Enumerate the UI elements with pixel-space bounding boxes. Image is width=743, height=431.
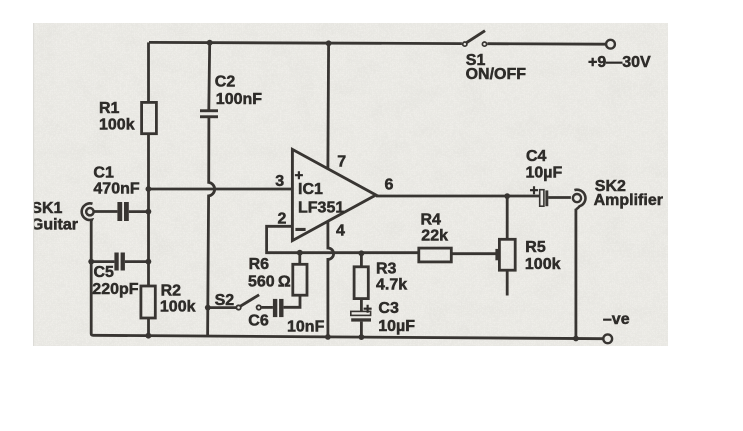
- svg-text:C4: C4: [526, 148, 547, 165]
- svg-text:100nF: 100nF: [216, 91, 262, 108]
- svg-text:22k: 22k: [421, 228, 448, 245]
- svg-text:SK1: SK1: [31, 200, 62, 217]
- svg-text:100k: 100k: [99, 116, 135, 133]
- svg-text:C2: C2: [215, 74, 236, 91]
- svg-text:IC1: IC1: [298, 181, 323, 198]
- svg-text:R1: R1: [99, 100, 120, 117]
- svg-text:C3: C3: [378, 300, 399, 317]
- svg-text:R5: R5: [525, 239, 546, 256]
- svg-text:LF351: LF351: [298, 199, 344, 216]
- svg-text:S2: S2: [215, 292, 235, 309]
- svg-text:10µF: 10µF: [526, 164, 563, 181]
- svg-text:Guitar: Guitar: [31, 217, 78, 234]
- svg-text:7: 7: [337, 154, 346, 171]
- svg-text:C5: C5: [94, 264, 115, 281]
- svg-text:Amplifier: Amplifier: [594, 192, 663, 209]
- svg-text:470nF: 470nF: [93, 181, 139, 198]
- svg-text:4.7k: 4.7k: [376, 276, 407, 293]
- svg-text:R6: R6: [249, 256, 270, 273]
- svg-text:560 Ω: 560 Ω: [248, 274, 291, 291]
- svg-text:100k: 100k: [160, 298, 196, 315]
- svg-text:+: +: [363, 301, 372, 318]
- svg-text:–ve: –ve: [603, 311, 630, 328]
- svg-text:+: +: [530, 182, 539, 199]
- svg-text:3: 3: [275, 173, 284, 190]
- svg-text:R3: R3: [376, 260, 397, 277]
- svg-text:10µF: 10µF: [378, 318, 415, 335]
- svg-text:+9—30V: +9—30V: [588, 54, 651, 71]
- svg-text:C6: C6: [248, 312, 269, 329]
- svg-text:C1: C1: [93, 164, 114, 181]
- svg-text:4: 4: [336, 223, 345, 240]
- svg-text:100k: 100k: [525, 256, 561, 273]
- svg-text:ON/OFF: ON/OFF: [466, 66, 527, 83]
- svg-text:R2: R2: [161, 282, 182, 299]
- svg-text:R4: R4: [421, 212, 442, 229]
- svg-text:2: 2: [278, 210, 287, 227]
- svg-text:220pF: 220pF: [92, 281, 138, 298]
- svg-text:10nF: 10nF: [287, 318, 325, 335]
- svg-text:6: 6: [385, 177, 394, 194]
